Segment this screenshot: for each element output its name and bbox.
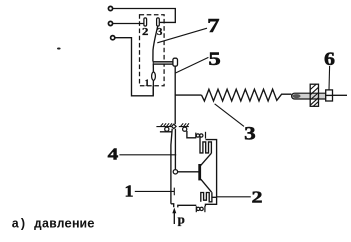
noise speck	[57, 48, 61, 50]
svg-text:1: 1	[145, 78, 150, 88]
terminal B (middle)	[108, 21, 112, 25]
lower bellows comb	[201, 192, 212, 202]
body bottom edge right of port	[178, 205, 197, 207]
leader to 1 with tick	[135, 188, 175, 196]
flapper link	[178, 171, 199, 173]
left pivot pin	[165, 127, 169, 131]
svg-text:р: р	[178, 211, 185, 226]
flapper pivot circle	[173, 170, 177, 174]
comb link to right edge	[212, 196, 217, 198]
lever left member (body edge)	[171, 129, 172, 204]
arm lower segment	[152, 64, 154, 72]
svg-text:2: 2	[252, 187, 263, 206]
shaft left end shading	[293, 94, 301, 98]
svg-text:5: 5	[208, 49, 220, 70]
moving contact arm	[153, 26, 158, 61]
leader to 7	[157, 28, 207, 43]
svg-text:4: 4	[108, 144, 119, 163]
right pivot support bar with hatching	[179, 123, 189, 126]
contact 3	[157, 18, 160, 26]
spring link line	[175, 94, 201, 96]
wire from terminal C down and to moving arm	[115, 38, 153, 96]
screw tail line	[333, 94, 348, 96]
svg-text:7: 7	[207, 15, 219, 37]
contact 2	[144, 18, 147, 26]
right pivot pin	[183, 127, 187, 131]
screw head 6	[326, 90, 333, 101]
svg-text:а) давление: а) давление	[12, 218, 95, 232]
center pivot diamond	[172, 124, 177, 128]
leader to 6	[328, 66, 331, 90]
contact 1 (oval)	[152, 72, 156, 80]
leader to 2	[217, 196, 251, 198]
wire from terminal B to contact 2	[113, 23, 144, 25]
spring 3	[202, 89, 292, 101]
body top edge and right edge	[205, 140, 216, 207]
left pivot support bar with hatching	[156, 123, 172, 126]
main rod	[174, 66, 176, 124]
wire from terminal A to contact 3	[113, 9, 176, 23]
hatched wall block	[310, 84, 318, 106]
upper bellows comb	[200, 137, 211, 153]
terminal C (bottom)	[111, 36, 115, 40]
svg-text:1: 1	[125, 181, 134, 200]
left lever bar	[160, 131, 172, 133]
flapper plate	[199, 164, 201, 180]
switch enclosure (dashed box)	[140, 15, 165, 86]
svg-text:2: 2	[142, 27, 148, 38]
pressure inlet arrow P	[173, 212, 175, 224]
plunger bar 5	[153, 62, 173, 65]
terminal A (top)	[108, 6, 112, 10]
lower orifice (double circles)	[195, 206, 197, 212]
adjusting screw shaft	[292, 93, 326, 99]
svg-text:6: 6	[324, 49, 335, 70]
leader to 3	[215, 104, 244, 127]
right pivot link to nozzle	[187, 131, 196, 138]
plunger cap	[173, 58, 178, 66]
arm tail to bottom	[152, 80, 154, 95]
svg-text:3: 3	[244, 123, 256, 144]
body bottom edge left of port	[171, 204, 174, 208]
svg-text:3: 3	[157, 27, 162, 38]
leader to 4	[119, 154, 176, 156]
leader to 5	[176, 57, 209, 73]
upper nozzle diagonal	[201, 153, 212, 165]
lever right member	[174, 129, 176, 170]
lower nozzle diagonal	[201, 179, 212, 192]
upper orifice (double circles)	[195, 133, 197, 139]
